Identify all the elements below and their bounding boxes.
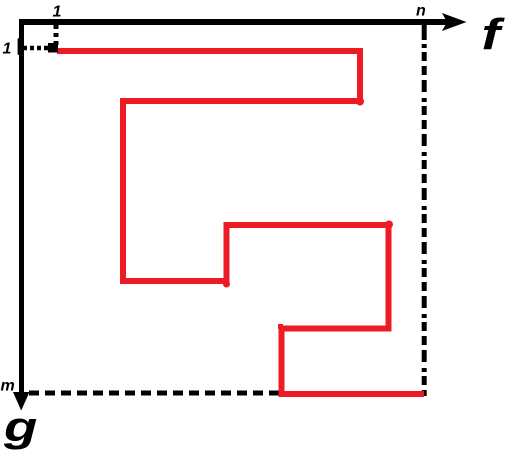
dashed line at row m (29, 391, 284, 396)
axis f (horizontal) (19, 19, 450, 25)
arrowhead g (13, 392, 30, 411)
dotted tick horizontal at row 1 (23, 46, 50, 51)
corner dot at (360,101) (356, 98, 364, 106)
svg-text:f: f (482, 9, 505, 59)
red warping path (57, 51, 424, 394)
corner blob at (389,225) (385, 221, 393, 229)
svg-text:1: 1 (53, 4, 62, 21)
left axis hand-drawn bump (18, 38, 21, 55)
junction blob at (1,1) (48, 43, 58, 53)
corner nub at (227,283) (223, 281, 230, 288)
label f (482, 9, 505, 59)
arrowhead f (442, 13, 467, 31)
corner nub at (282,327) (278, 324, 283, 329)
dotted tick vertical at column 1 (54, 25, 59, 46)
dash-dot line at column n (422, 24, 427, 40)
svg-text:g: g (3, 404, 37, 451)
axis g (vertical) (19, 19, 24, 394)
svg-text:n: n (416, 3, 426, 20)
svg-text:1: 1 (3, 41, 12, 58)
label g (3, 404, 37, 451)
svg-text:m: m (1, 378, 15, 395)
